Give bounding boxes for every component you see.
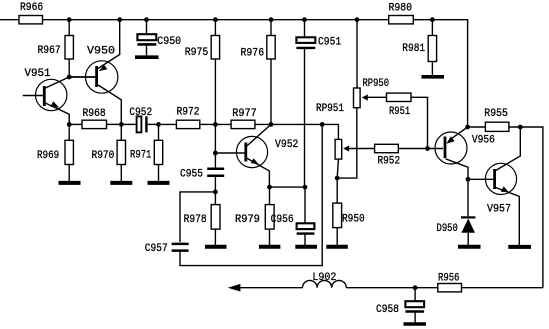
node R975 bottom / R972-R977 (213, 122, 218, 127)
resistor R972 (176, 120, 199, 128)
ground for R971 (148, 181, 170, 185)
wire R956 right (462, 287, 543, 289)
wire C952 to R971 node (146, 123, 158, 125)
ground for D950 (458, 245, 481, 249)
node C950 rail (144, 17, 149, 22)
resistor R952 (375, 144, 399, 152)
wire RP950 bottom to RP951 bottom node (337, 108, 357, 178)
wire R967 top stem (68, 20, 70, 36)
wire R975 top stem (214, 20, 216, 36)
wire L902 to R956 through C958 node (346, 287, 438, 289)
wire R950 bottom stem (336, 228, 338, 245)
svg-text:R971: R971 (130, 150, 152, 162)
wire V957 base (468, 178, 494, 180)
node V952 emitter / R979 (267, 185, 272, 190)
wire R976 top stem (270, 20, 272, 36)
wire V952 base (215, 152, 245, 154)
capacitor C950 (137, 34, 156, 56)
svg-text:R980: R980 (389, 3, 413, 15)
resistor R977 (231, 120, 255, 128)
transistor V956 (435, 127, 468, 179)
wire R955 left (468, 126, 486, 128)
wire D950 top stem (467, 179, 469, 216)
transistor V950 (69, 20, 121, 125)
svg-text:C950: C950 (157, 36, 181, 48)
wire C955 to R978 node (214, 177, 216, 205)
wire top rail middle segment (43, 19, 389, 21)
svg-text:V957: V957 (487, 204, 511, 216)
node C951 drop / C956 (303, 185, 308, 190)
svg-text:D950: D950 (437, 223, 458, 235)
wire R967 bottom stem to node (68, 59, 70, 77)
ground for C950 (135, 55, 159, 59)
node V952 base (213, 151, 218, 156)
resistor R970 (117, 140, 125, 164)
wire RP950 wiper to R951 (367, 96, 386, 98)
node feedback tap on mid rail (320, 122, 325, 127)
wire R970 top stem (120, 124, 122, 140)
svg-text:R972: R972 (177, 107, 200, 119)
svg-text:V952: V952 (275, 139, 298, 151)
svg-text:R966: R966 (20, 2, 43, 14)
wire R971 top stem (158, 124, 160, 140)
svg-text:RP951: RP951 (316, 103, 344, 115)
resistor R950 (333, 203, 342, 228)
svg-text:R952: R952 (378, 156, 401, 168)
svg-text:R978: R978 (184, 214, 207, 226)
wire R976 bottom stem (270, 59, 272, 124)
resistor R967 (65, 36, 73, 60)
capacitor C957 (172, 244, 189, 251)
svg-text:R977: R977 (232, 108, 256, 120)
svg-text:R969: R969 (37, 150, 59, 162)
svg-text:C955: C955 (180, 169, 203, 181)
potentiometer RP950 (354, 88, 368, 108)
wire to C952 (121, 123, 136, 125)
resistor R976 (267, 36, 275, 60)
svg-text:C951: C951 (318, 37, 342, 49)
node V956 collector / V957 base / D950 (466, 177, 471, 182)
svg-text:R976: R976 (241, 48, 265, 60)
resistor R971 (154, 140, 162, 164)
capacitor C955 (207, 169, 224, 176)
svg-text:C956: C956 (271, 214, 294, 226)
svg-text:C958: C958 (376, 304, 399, 316)
wire R970 bottom stem (120, 165, 122, 181)
node C952 / R971 (156, 122, 161, 127)
node RP951 bottom / R950 (335, 176, 340, 181)
wire C958 top stem (414, 288, 416, 302)
resistor R981 (428, 36, 436, 62)
wire R955 right to corner and down right edge (509, 127, 543, 288)
svg-text:L902: L902 (312, 272, 336, 284)
wire mid rail: V951 node to R968 (69, 123, 82, 125)
ground for R979 (259, 245, 281, 249)
svg-text:C957: C957 (145, 243, 168, 255)
resistor R968 (82, 120, 107, 128)
capacitor C952 (137, 116, 147, 132)
svg-text:R970: R970 (92, 150, 115, 162)
ground for C956 (295, 245, 317, 249)
resistor R978 (211, 205, 220, 230)
wire R969 top stem (68, 124, 70, 140)
wire R951 right drop to V956 base node (411, 97, 428, 148)
wire R977 right through V952 collector node to feedback node and RP951 top (255, 124, 339, 139)
node V952 collector / R976 bottom (269, 122, 274, 127)
svg-text:R967: R967 (38, 45, 61, 57)
resistor R969 (65, 140, 73, 164)
node R975 rail (213, 17, 218, 22)
ground for R970 (110, 181, 132, 185)
wire V952 emitter to C956 node (270, 186, 306, 188)
node V950 emitter rail (117, 17, 122, 22)
wire R981 top stem (431, 20, 433, 36)
resistor R951 (387, 93, 412, 101)
transistor V952 (236, 124, 271, 187)
svg-text:R975: R975 (185, 47, 209, 59)
node R981 rail (430, 17, 435, 22)
wire R971 bottom stem (158, 165, 160, 181)
svg-text:R951: R951 (389, 106, 411, 118)
wire arrow line to L902 (239, 287, 303, 289)
wire RP951 wiper to R952 (349, 148, 375, 150)
wire C951 top stem (304, 20, 306, 38)
node RP950 rail (355, 17, 360, 22)
diode D950 (461, 217, 475, 245)
wire C950 stem (146, 20, 148, 35)
ground for R950 (326, 245, 348, 249)
resistor R980 (389, 16, 414, 24)
svg-text:V950: V950 (87, 46, 115, 58)
wire R975 node down to V952 base node and C955 (214, 124, 216, 167)
svg-text:C952: C952 (129, 107, 152, 119)
svg-text:RP950: RP950 (363, 78, 390, 90)
transistor V957 (485, 127, 520, 245)
wire R969 bottom stem (68, 165, 70, 181)
wire C951 bottom long drop to emitter node (304, 48, 306, 187)
arrow output to the left (228, 284, 241, 292)
svg-text:R950: R950 (342, 214, 365, 226)
wire R981 bottom stem (431, 62, 433, 76)
svg-text:R979: R979 (235, 214, 260, 226)
potentiometer RP951 (335, 139, 349, 159)
wire R975 bottom stem (214, 59, 216, 124)
wire C956 top stem (304, 187, 306, 223)
resistor R966 (19, 16, 43, 24)
node V951 emitter / R969 (67, 122, 72, 127)
node R976 rail (269, 17, 274, 22)
node C955 / R978 junction (213, 190, 218, 195)
svg-text:R968: R968 (83, 108, 106, 120)
node V950 collector / R970 (119, 122, 124, 127)
ground for R969 (59, 181, 81, 185)
node R955 right / V957 collector (518, 125, 523, 130)
ground for R978 (205, 245, 227, 249)
resistor R975 (211, 36, 219, 60)
node V956 base junction (425, 146, 430, 151)
svg-text:V951: V951 (25, 68, 51, 80)
ground for C958 (404, 322, 427, 326)
wire top rail left segment (0, 19, 19, 21)
node C951 rail (302, 17, 307, 22)
node C958 / R956 (413, 285, 418, 290)
wire top rail right segment and right drop to R955 node (413, 20, 467, 127)
wire R968 to V950 collector node (107, 123, 122, 125)
ground for V957 emitter (508, 245, 531, 249)
wire C957 bottom feedback to mid-rail node (180, 124, 322, 265)
svg-text:R955: R955 (484, 108, 508, 120)
wire R979 top stem (269, 187, 271, 205)
svg-text:V956: V956 (472, 135, 495, 147)
resistor R955 (485, 122, 509, 131)
capacitor C956 (297, 223, 315, 245)
resistor R956 (438, 284, 462, 292)
wire RP950 top stem (356, 20, 358, 88)
wire R972 to R977 through R975 node (200, 123, 231, 125)
wire R952 to V956 base node and base (398, 148, 443, 150)
wire R979 bottom stem (269, 229, 271, 245)
wire R978 bottom stem (214, 229, 216, 245)
ground for R981 (422, 75, 445, 79)
svg-text:R956: R956 (438, 273, 459, 285)
transistor V951 (23, 77, 69, 124)
inductor L902 (303, 280, 347, 287)
svg-text:R981: R981 (402, 43, 425, 55)
node V950 base junction (67, 75, 72, 80)
wire to R972 (159, 123, 177, 125)
capacitor C951 (296, 37, 315, 48)
wire R978 node left to C957 column (180, 192, 215, 242)
resistor R979 (265, 205, 274, 230)
node R955 left / V956 emitter (465, 125, 470, 130)
capacitor C958 (405, 301, 424, 322)
wire RP951 bottom stem to node (337, 159, 338, 178)
node R967 top rail (67, 17, 72, 22)
wire R950 top stem (336, 178, 338, 203)
wire V950 base (69, 76, 95, 78)
